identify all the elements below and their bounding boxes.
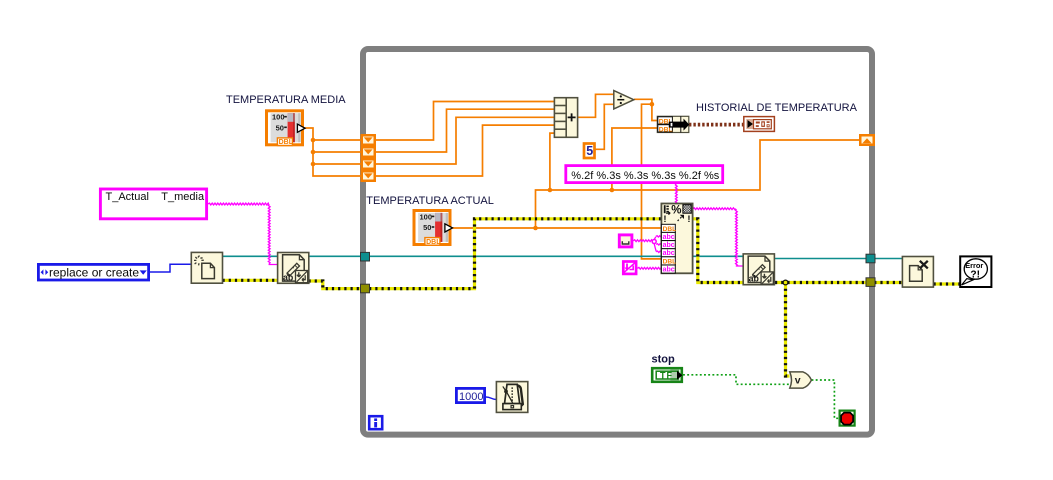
tunnel: file refnum (right border) xyxy=(866,254,875,263)
svg-text:TF: TF xyxy=(660,371,673,381)
wait ms node (metronome) xyxy=(496,382,527,413)
svg-text:ab: ab xyxy=(283,272,294,282)
waveform chart indicator HISTORIAL DE TEMPERATURA xyxy=(744,117,775,132)
wire: format string constant to format node xyxy=(675,184,677,204)
stop boolean control xyxy=(652,368,682,382)
svg-text:?!: ?! xyxy=(970,269,980,280)
iteration terminal i xyxy=(369,416,382,429)
numeric constant 5 xyxy=(584,144,595,159)
space constant xyxy=(619,235,632,247)
svg-text:100: 100 xyxy=(272,113,285,122)
string constant %.2f %.3s %.3s %.3s %.2f %s xyxy=(566,166,723,183)
thermometer indicator TEMPERATURA MEDIA xyxy=(265,109,305,146)
svg-text:%.2f %.3s %.3s %.3s %.2f %s: %.2f %.3s %.3s %.3s %.2f %s xyxy=(571,170,719,182)
enum constant replace or create xyxy=(38,264,148,280)
svg-text:abc: abc xyxy=(663,234,675,241)
or gate xyxy=(790,372,812,388)
label TEMPERATURA MEDIA xyxy=(226,94,346,106)
write to text file node 1 xyxy=(278,253,309,284)
thermometer indicator TEMPERATURA ACTUAL xyxy=(413,209,453,246)
wire: merge signals to chart (dynamic data) xyxy=(689,123,743,127)
wire: file refnum write2 to tunnel to close xyxy=(775,258,903,260)
end of line constant xyxy=(623,262,636,274)
tunnel: error cluster (left border) xyxy=(361,284,370,293)
svg-text:ab: ab xyxy=(749,274,760,284)
wire: constant 5 to divide input xyxy=(596,104,614,149)
svg-text:TEMPERATURA ACTUAL: TEMPERATURA ACTUAL xyxy=(366,195,494,207)
label TEMPERATURA ACTUAL xyxy=(366,195,494,207)
svg-text:v: v xyxy=(795,375,801,387)
wire: enum to open file node xyxy=(150,264,192,272)
svg-text:T_Actual: T_Actual xyxy=(106,191,149,203)
svg-text:DBL: DBL xyxy=(279,139,294,146)
wire: 1000 constant to wait node xyxy=(486,397,497,400)
svg-text:50: 50 xyxy=(423,223,431,232)
wire: T media thermometer to left shift registers xyxy=(304,128,361,176)
wire: T actual thermometer to format node DBL input, with branches xyxy=(450,128,859,230)
tunnel: file refnum (left border) xyxy=(361,252,370,261)
shift register stack (left, 4 cells) xyxy=(361,134,377,182)
while loop border xyxy=(363,49,872,435)
svg-text:!: ! xyxy=(663,214,666,225)
divide node xyxy=(614,91,634,109)
merge signals node xyxy=(657,116,689,133)
svg-text:!: ! xyxy=(687,214,690,225)
wire: shift register 4 to add input 4 xyxy=(376,125,555,176)
write to text file node 2 xyxy=(743,254,774,285)
wire: shift register 1 to add input 1 xyxy=(376,102,555,141)
wire: file refnum open to write1 to tunnel to write2 xyxy=(223,255,744,257)
format into string node xyxy=(661,204,692,274)
tunnel: error cluster (right border) xyxy=(866,278,875,287)
wire: or gate to loop condition terminal xyxy=(812,380,840,418)
numeric constant 1000 xyxy=(456,388,484,402)
string constant T_Actual T_media xyxy=(100,189,206,219)
svg-text:abc: abc xyxy=(663,250,675,257)
svg-text:50: 50 xyxy=(276,123,284,132)
svg-text:stop: stop xyxy=(652,354,676,366)
svg-text:T_media: T_media xyxy=(161,191,205,203)
svg-text:abc: abc xyxy=(663,267,675,274)
close file node xyxy=(902,257,933,288)
wire: format node output to write2 text input xyxy=(693,208,743,266)
svg-text:5: 5 xyxy=(586,144,593,158)
svg-text:TEMPERATURA MEDIA: TEMPERATURA MEDIA xyxy=(226,94,346,106)
wire: error open to write1 xyxy=(223,279,278,282)
wire: add output to divide input xyxy=(578,94,614,117)
wire: end-of-line constant to format node abc6 input xyxy=(638,267,662,269)
wire: T_Actual string constant to write1 text input xyxy=(208,203,278,264)
wire: divide output to bundle and format node DBL5 xyxy=(634,99,661,259)
wire: space constant to format node abc inputs (fork) xyxy=(633,236,661,253)
simple error handler node xyxy=(960,256,991,287)
label HISTORIAL DE TEMPERATURA xyxy=(696,102,858,114)
wire: error write2 to tunnel to close, junction to or gate xyxy=(775,280,903,376)
svg-text:abc: abc xyxy=(663,242,675,249)
open or create file node xyxy=(191,252,222,283)
shift register (right) xyxy=(859,134,875,146)
svg-text:replace or create: replace or create xyxy=(49,266,139,280)
loop condition terminal (stop if true) xyxy=(840,411,855,426)
svg-text:%: % xyxy=(671,204,681,216)
wire: error write1 to tunnel to write2 xyxy=(309,219,744,289)
label stop xyxy=(652,354,676,366)
compound arithmetic add node xyxy=(554,98,577,138)
svg-text:DBL: DBL xyxy=(426,239,441,246)
wire: error close to error handler xyxy=(934,282,961,285)
wire: shift register 2 to add input 2 xyxy=(376,109,555,152)
svg-text:HISTORIAL DE TEMPERATURA: HISTORIAL DE TEMPERATURA xyxy=(696,102,858,114)
svg-text:100: 100 xyxy=(420,212,433,221)
wire: shift register 3 to add input 3 xyxy=(376,117,555,164)
wire: stop button to or gate xyxy=(683,375,790,385)
svg-text:1000: 1000 xyxy=(459,391,483,403)
